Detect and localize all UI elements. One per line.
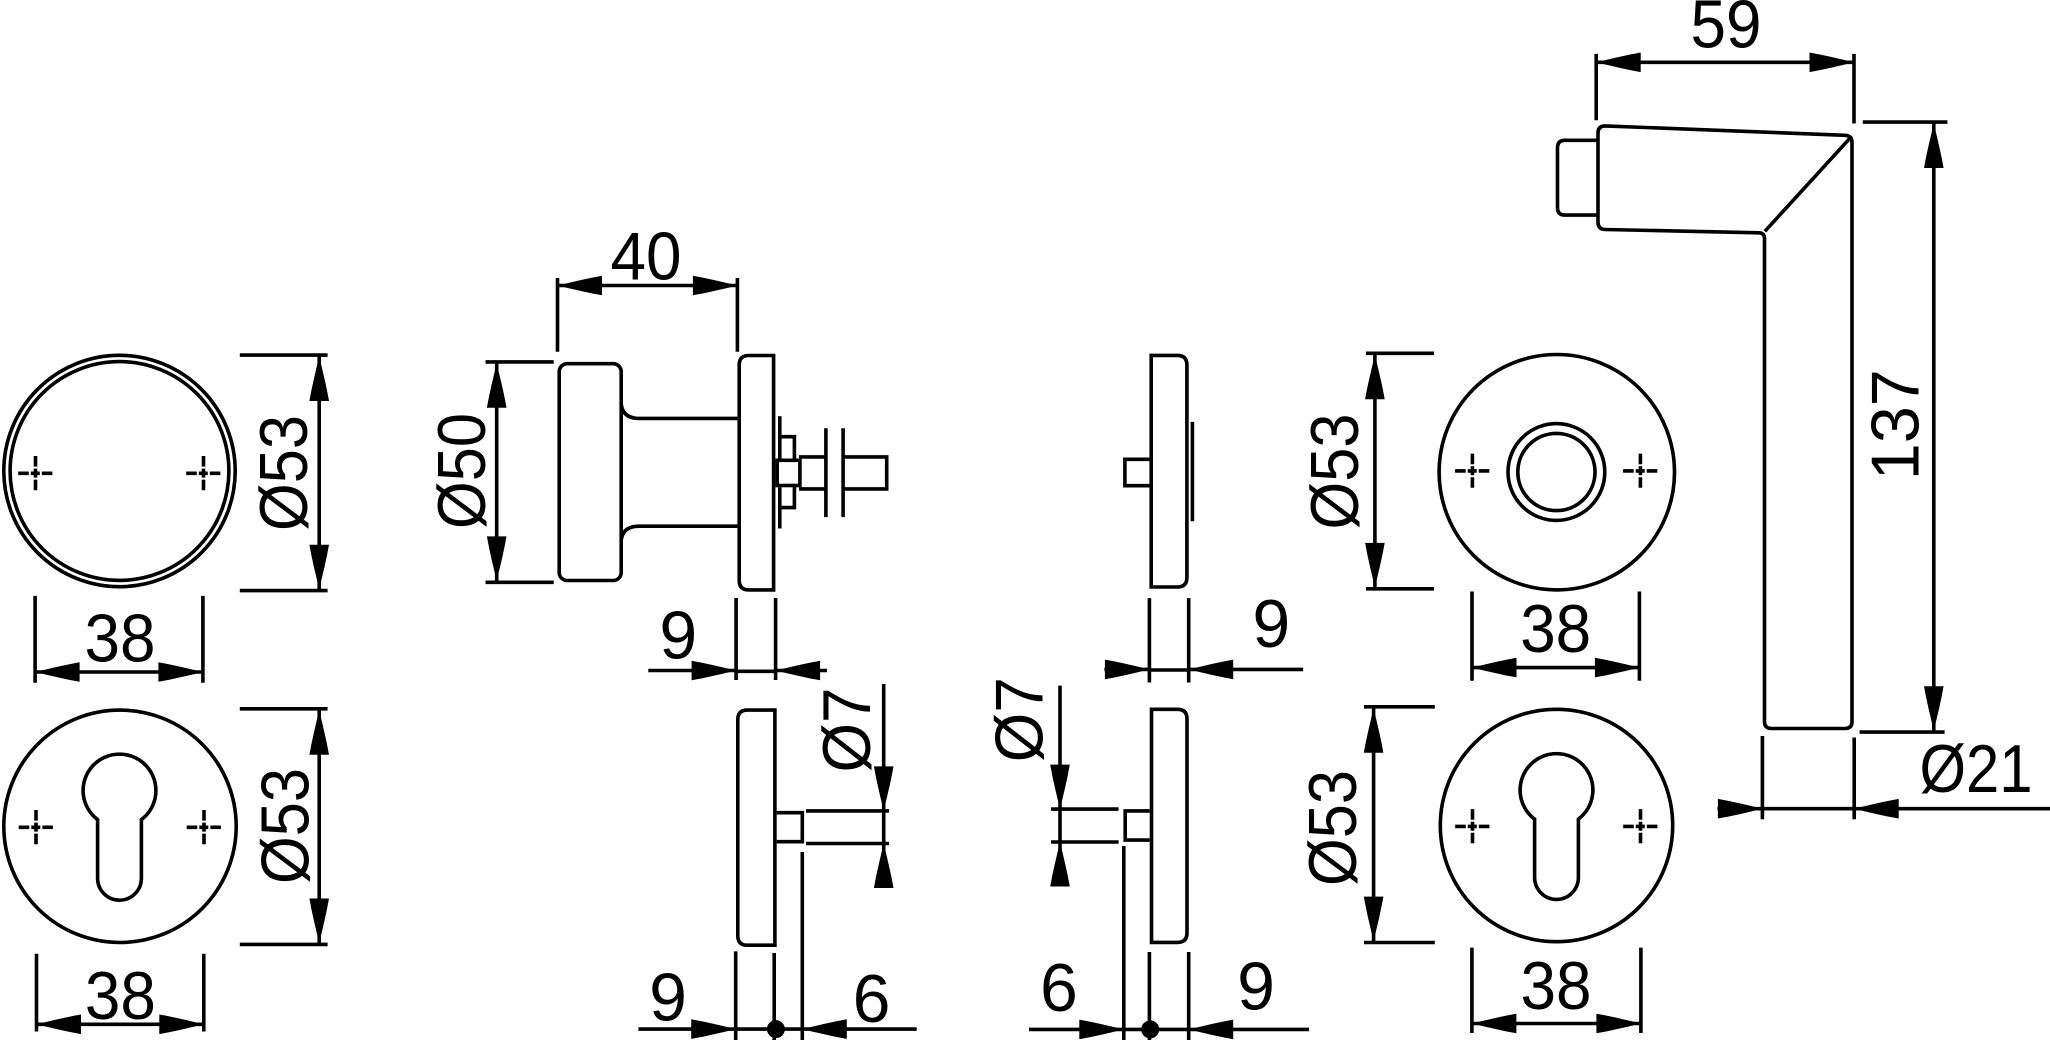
lower-right rosette locating pin — [1125, 811, 1150, 840]
lower-left rosette extension line back face — [772, 953, 776, 1040]
knob side view: dimension 40 extension line left — [556, 278, 560, 352]
knob rosette thickness 9 dimension line right part — [776, 669, 827, 673]
svg-text:Ø53: Ø53 — [1297, 414, 1373, 530]
lower-right rosette Ø7 dimension line upper — [1058, 686, 1062, 810]
lower-left rosette Ø7 arrow up — [874, 844, 894, 889]
dimension Ø53 (bottom-left escutcheon) arrow up — [309, 710, 329, 755]
lever handle dimension 59 arrow left — [1596, 53, 1641, 73]
dimension 38 (bottom-left escutcheon) dimension line — [37, 1023, 204, 1027]
knob backplate edge line — [778, 416, 782, 458]
dimension 38 (bottom-left escutcheon) extension line right — [202, 954, 206, 1032]
dimension 38 (bottom-right escutcheon) dimension line — [1472, 1022, 1641, 1026]
lever handle dimension 137 dimension line — [1932, 122, 1936, 732]
lower-right rosette arrow pointing right — [1079, 1020, 1124, 1040]
lower-right rosette extension line back face — [1187, 952, 1191, 1040]
lever handle dimension 137 arrow down — [1924, 686, 1944, 731]
screw hole center mark left — [18, 456, 53, 491]
lever handle neck — [1558, 140, 1599, 215]
dimension 38 (top-right rosette) extension line left — [1470, 592, 1474, 681]
upper-right rosette thickness 9 extension line left — [1148, 598, 1152, 682]
bottom-right escutcheon keyhole — [1520, 754, 1593, 900]
svg-text:Ø53: Ø53 — [1295, 770, 1371, 886]
svg-text:38: 38 — [1520, 591, 1591, 667]
spindle break line 2 — [841, 428, 845, 517]
dimension Ø53 (bottom-right escutcheon) extension line bottom — [1364, 941, 1435, 945]
bottom-right escutcheon center mark left — [1455, 809, 1490, 844]
lower-right rosette junction dot — [1141, 1020, 1159, 1038]
lower-left rosette arrow pointing left — [802, 1019, 847, 1039]
dimension Ø53 (top-left rosette) arrow up — [309, 357, 329, 402]
lever handle Ø21 arrow pointing left — [1854, 799, 1899, 819]
upper-right rosette thickness 9 dimension line right part — [1189, 668, 1303, 672]
lower-right rosette side view body — [1152, 709, 1188, 942]
dimension Ø53 (top-left rosette) arrow down — [309, 545, 329, 590]
dimension 38 (top-left rosette) arrow left — [35, 662, 80, 682]
escutcheon screw hole center mark right — [187, 810, 222, 845]
lever handle dimension 59 extension line right — [1852, 54, 1856, 124]
lower-left rosette Ø7 extension line top — [806, 809, 889, 813]
lower-left rosette locating pin — [777, 813, 803, 842]
knob fixing plate upper tab — [781, 437, 794, 459]
dimension 38 (top-left rosette) dimension line — [35, 670, 203, 674]
lever handle Ø21 extension line right — [1852, 738, 1856, 820]
lower-right rosette Ø7 extension line top — [1051, 807, 1119, 811]
lever handle Ø21 dimension line — [1718, 807, 2050, 811]
lever handle Ø21 extension line left — [1761, 736, 1765, 819]
lever handle dimension 137 extension line top — [1863, 120, 1948, 124]
lower-left rosette Ø7 dimension line upper — [882, 684, 886, 811]
handle rosette screw center mark left — [1455, 454, 1490, 489]
lower-right rosette extension line pin end — [1122, 846, 1126, 1040]
knob rosette thickness 9 arrow pointing right — [692, 661, 737, 681]
knob side view: dimension 40 dimension line — [558, 284, 738, 288]
knob dimension 40 arrow right — [693, 276, 738, 296]
dimension Ø53 (top-right rosette) extension line top — [1366, 351, 1434, 355]
handle rosette hole inner ring — [1518, 433, 1595, 510]
blind rosette front view (top-left) outer circle — [4, 355, 235, 586]
key escutcheon front view (bottom-right) circle — [1440, 709, 1672, 941]
knob rosette thickness 9 extension line left — [734, 598, 738, 680]
lower-left rosette 9 and 6 dimension line — [638, 1027, 916, 1031]
dimension 38 (top-right rosette) dimension line — [1472, 666, 1639, 670]
upper-right rosette side view body — [1151, 355, 1187, 587]
svg-text:137: 137 — [1858, 369, 1934, 480]
dimension 38 (bottom-left escutcheon) extension line left — [35, 954, 39, 1032]
knob hub — [777, 460, 800, 485]
svg-text:Ø7: Ø7 — [809, 688, 885, 773]
knob spindle left segment top line — [799, 455, 826, 459]
lower-right rosette Ø7 arrow up — [1050, 842, 1070, 887]
upper-right rosette snap edge bar — [1191, 422, 1195, 521]
handle rosette hole outer ring — [1508, 424, 1605, 521]
svg-text:38: 38 — [85, 601, 156, 677]
lower-left rosette Ø7 arrow down — [874, 766, 894, 811]
upper-right rosette thickness 9 dimension line left part — [1104, 668, 1149, 672]
dimension 38 (bottom-left escutcheon) arrow right — [159, 1015, 204, 1035]
lower-left rosette extension line front face — [734, 951, 738, 1040]
svg-text:6: 6 — [853, 961, 891, 1037]
dimension 38 (top-left rosette) extension line right — [201, 596, 205, 683]
dimension 38 (bottom-right escutcheon) extension line right — [1639, 948, 1643, 1033]
lower-right rosette Ø7 extension line bottom — [1051, 840, 1119, 844]
dimension 38 (top-right rosette) arrow left — [1472, 658, 1517, 678]
svg-text:Ø53: Ø53 — [248, 768, 324, 884]
dimension 38 (bottom-right escutcheon) arrow left — [1472, 1014, 1517, 1034]
knob rosette thickness 9 extension line right — [774, 598, 778, 680]
svg-text:59: 59 — [1691, 0, 1762, 63]
knob spindle right segment — [844, 457, 887, 489]
knob rosette thickness 9 dimension line left part — [648, 669, 736, 673]
upper-right rosette thickness 9 extension line right — [1187, 598, 1191, 682]
dimension Ø53 (top-right rosette) dimension line — [1373, 353, 1377, 589]
screw hole center mark right — [186, 456, 221, 491]
knob face disk — [559, 364, 621, 581]
lever handle bend miter line — [1765, 136, 1852, 231]
dimension 38 (bottom-right escutcheon) arrow right — [1596, 1014, 1641, 1034]
dimension Ø53 (top-left rosette) dimension line — [317, 355, 321, 590]
lower-left rosette arrow pointing right — [691, 1019, 736, 1039]
svg-text:38: 38 — [85, 958, 156, 1034]
lower-right rosette Ø7 arrow down — [1050, 765, 1070, 810]
dimension Ø53 (top-right rosette) arrow up — [1365, 355, 1385, 400]
upper-right rosette thickness 9 dimension line middle segment — [1149, 668, 1188, 672]
dimension Ø53 (bottom-right escutcheon) dimension line — [1372, 707, 1376, 943]
blind rosette front view inner circle — [10, 362, 229, 581]
knob spindle left segment bottom line — [799, 487, 826, 491]
upper-right rosette locating pin — [1125, 459, 1150, 485]
dimension 38 (top-left rosette) arrow right — [158, 662, 203, 682]
lever handle dimension 59 arrow right — [1810, 53, 1855, 73]
lower-left rosette Ø7 dimension line lower — [882, 844, 886, 886]
dimension 38 (bottom-left escutcheon) arrow left — [37, 1015, 82, 1035]
dimension Ø53 (top-left rosette) extension line bottom — [240, 589, 328, 593]
dimension Ø53 (top-right rosette) arrow down — [1365, 543, 1385, 588]
knob Ø50 dimension extension line bottom — [486, 580, 554, 584]
knob dimension 40 arrow left — [558, 276, 603, 296]
lower-left rosette Ø7 extension line bottom — [806, 842, 889, 846]
knob neck top edge with fillet — [621, 404, 737, 418]
svg-text:Ø50: Ø50 — [424, 413, 500, 529]
knob rosette thickness 9 arrow pointing left — [776, 661, 821, 681]
dimension Ø53 (bottom-right escutcheon) arrow up — [1364, 708, 1384, 753]
lever handle dimension 59 extension line left — [1594, 54, 1598, 120]
lower-right rosette Ø7 dimension line middle segment — [1058, 809, 1062, 842]
svg-text:Ø7: Ø7 — [982, 677, 1058, 762]
knob Ø50 arrow down — [487, 536, 507, 581]
knob rosette side view — [739, 356, 773, 590]
dimension Ø53 (bottom-left escutcheon) dimension line — [317, 709, 321, 945]
svg-text:9: 9 — [1252, 586, 1290, 662]
key escutcheon front view (bottom-left) circle — [4, 710, 236, 942]
dimension Ø53 (bottom-left escutcheon) arrow down — [309, 899, 329, 944]
svg-text:Ø53: Ø53 — [246, 415, 322, 531]
upper-right rosette thickness 9 arrow pointing left — [1189, 660, 1234, 680]
svg-text:40: 40 — [611, 219, 682, 295]
lower-right rosette extension line front face — [1148, 952, 1152, 1040]
spindle break line 1 — [824, 428, 828, 517]
dimension 38 (top-right rosette) arrow right — [1595, 658, 1640, 678]
knob Ø50 dimension line — [495, 362, 499, 582]
knob rosette thickness 9 dimension line middle segment — [736, 669, 776, 673]
lever handle body outline — [1598, 126, 1852, 729]
lower-left rosette junction dot — [767, 1020, 785, 1038]
lever handle Ø21 arrow pointing right — [1718, 799, 1763, 819]
knob fixing plate lower tab — [781, 486, 794, 508]
handle rosette front view (top-right) outer circle — [1439, 355, 1674, 590]
svg-text:6: 6 — [1040, 950, 1078, 1026]
dimension 38 (bottom-right escutcheon) extension line left — [1470, 948, 1474, 1033]
lower-right rosette 6 and 9 dimension line — [1029, 1028, 1309, 1032]
handle rosette screw center mark right — [1623, 454, 1658, 489]
knob side view: dimension 40 extension line right — [736, 278, 740, 352]
dimension Ø53 (bottom-right escutcheon) extension line top — [1364, 705, 1435, 709]
lever handle dimension 137 extension line bottom — [1860, 730, 1945, 734]
dimension Ø53 (bottom-left escutcheon) extension line top — [240, 707, 328, 711]
svg-text:9: 9 — [1237, 948, 1275, 1024]
bottom-right escutcheon center mark right — [1623, 809, 1658, 844]
lever handle dimension 137 arrow up — [1924, 124, 1944, 169]
dimension Ø53 (bottom-right escutcheon) arrow down — [1364, 897, 1384, 942]
lower-left rosette Ø7 dimension line middle segment — [882, 811, 886, 844]
svg-text:Ø21: Ø21 — [1920, 731, 2033, 807]
dimension Ø53 (bottom-left escutcheon) extension line bottom — [240, 943, 328, 947]
dimension Ø53 (top-left rosette) extension line top — [240, 353, 328, 357]
lever handle dimension 59 dimension line — [1596, 60, 1854, 64]
lower-left rosette side view body — [738, 710, 775, 945]
knob neck bottom edge with fillet — [621, 526, 737, 540]
svg-text:9: 9 — [659, 597, 697, 673]
svg-text:38: 38 — [1521, 948, 1592, 1024]
dimension Ø53 (top-right rosette) extension line bottom — [1366, 587, 1434, 591]
knob Ø50 arrow up — [487, 363, 507, 408]
lower-left rosette extension line pin end — [800, 852, 804, 1040]
svg-text:9: 9 — [649, 960, 687, 1036]
knob Ø50 dimension extension line top — [486, 360, 554, 364]
lower-right rosette arrow pointing left — [1189, 1020, 1234, 1040]
lower-right rosette Ø7 dimension line lower — [1058, 842, 1062, 885]
escutcheon screw hole center mark left — [19, 810, 54, 845]
dimension 38 (top-left rosette) extension line left — [33, 596, 37, 683]
dimension 38 (top-right rosette) extension line right — [1638, 592, 1642, 681]
key escutcheon profile cylinder keyhole — [83, 754, 156, 900]
upper-right rosette thickness 9 arrow pointing right — [1105, 660, 1150, 680]
